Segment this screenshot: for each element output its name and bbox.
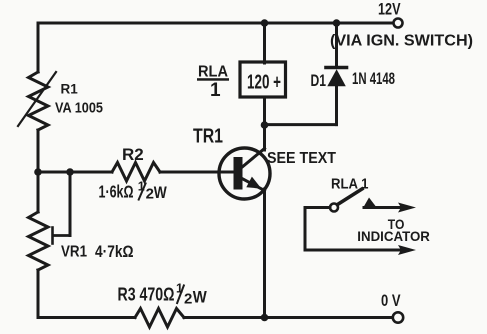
svg-text:0 V: 0 V	[381, 292, 401, 310]
svg-text:VR1: VR1	[61, 244, 87, 261]
svg-text:W: W	[193, 287, 208, 306]
wire contact output upper arrow	[364, 203, 416, 213]
svg-text:1: 1	[210, 80, 221, 101]
relay contact RLA1 fixed contact	[363, 198, 377, 209]
relay contact RLA1 arm	[338, 189, 363, 205]
svg-text:(VIA IGN. SWITCH): (VIA IGN. SWITCH)	[330, 33, 473, 50]
svg-text:1·6kΩ: 1·6kΩ	[99, 182, 134, 202]
junction node collector / D1	[261, 121, 269, 129]
junction node wiper / base wire	[66, 168, 74, 176]
wire emitter to 0V rail	[263, 189, 266, 318]
diode D1 1N4148	[326, 23, 347, 125]
wire top rail +12V	[38, 22, 394, 25]
label R3 470 ohm value	[118, 282, 208, 308]
wire collector node to D1 anode	[265, 123, 337, 126]
relay coil RLA/1	[240, 62, 286, 97]
svg-text:RLA 1: RLA 1	[331, 175, 369, 192]
svg-text:W: W	[154, 183, 168, 202]
junction node emitter / 0V rail	[261, 314, 269, 322]
wire R2 to base	[160, 171, 233, 174]
wire left rail upper	[37, 23, 40, 72]
junction node left rail / base wire	[34, 168, 42, 176]
svg-text:R2: R2	[122, 145, 144, 164]
svg-text:RLA: RLA	[198, 64, 228, 81]
potentiometer VR1	[29, 212, 71, 270]
svg-text:INDICATOR: INDICATOR	[357, 228, 430, 244]
wire left rail lower	[37, 270, 40, 318]
svg-text:D1: D1	[311, 72, 327, 90]
label RLA underline	[197, 78, 229, 81]
wire bottom rail left	[38, 316, 135, 319]
svg-text:TR1: TR1	[193, 126, 223, 148]
relay contact RLA1 pivot	[330, 204, 338, 212]
svg-text:2: 2	[146, 186, 154, 203]
svg-text:12V: 12V	[378, 1, 401, 19]
node +12V input terminal	[394, 19, 403, 28]
wire VR1 wiper branch	[69, 172, 72, 236]
resistor R2	[112, 163, 160, 182]
transistor TR1	[219, 148, 270, 199]
wire bottom rail right	[184, 316, 393, 319]
svg-text:4·7kΩ: 4·7kΩ	[95, 242, 134, 261]
junction node top rail / relay coil	[261, 19, 269, 27]
svg-text:VA 1005: VA 1005	[55, 100, 103, 117]
svg-text:1N 4148: 1N 4148	[352, 70, 395, 88]
wire relay coil top	[263, 23, 266, 63]
wire left rail middle	[37, 130, 40, 212]
resistor R1 VA1005	[18, 72, 56, 130]
resistor R3	[135, 309, 184, 328]
wire contact common to lower arrow	[305, 208, 416, 256]
svg-text:R3 470Ω: R3 470Ω	[118, 284, 175, 305]
wire relay coil bottom	[263, 97, 266, 125]
svg-text:R1: R1	[61, 82, 79, 97]
wire base rail	[38, 171, 112, 174]
wire collector	[263, 125, 266, 150]
svg-text:120 +: 120 +	[247, 72, 281, 94]
svg-text:2: 2	[184, 291, 192, 308]
svg-text:SEE TEXT: SEE TEXT	[267, 150, 336, 167]
label 1.6kΩ value	[99, 180, 168, 203]
node 0V terminal	[393, 312, 403, 322]
junction node top rail / D1	[333, 19, 341, 27]
